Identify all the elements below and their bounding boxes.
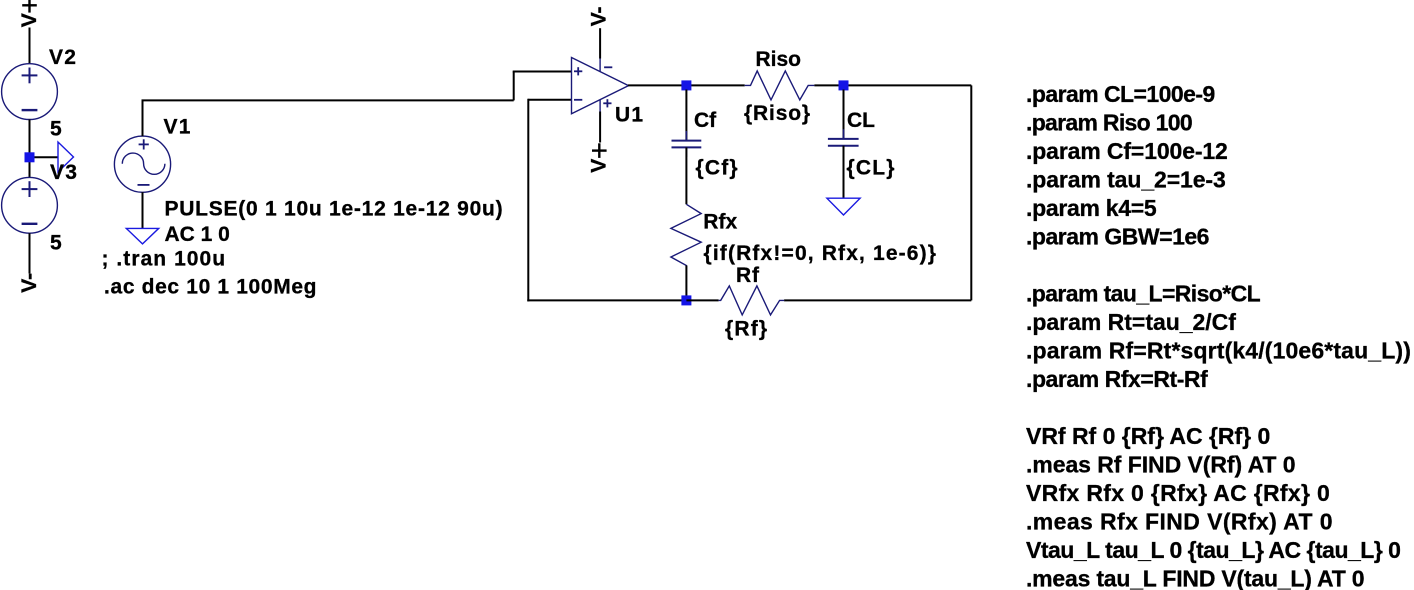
wire bottom power pin: [599, 112, 601, 143]
voltage source V2: [2, 64, 58, 120]
svg-text:Cf: Cf: [694, 109, 717, 132]
svg-text:.param Rfx=Rt-Rf: .param Rfx=Rt-Rf: [1026, 366, 1208, 392]
resistor Riso (horizontal): [745, 71, 815, 100]
wire CL to ground: [843, 146, 845, 198]
svg-text:.param tau_L=Riso*CL: .param tau_L=Riso*CL: [1026, 281, 1261, 307]
wire V1 bottom lead: [142, 192, 144, 228]
svg-text:AC 1 0: AC 1 0: [165, 223, 230, 246]
svg-text:CL: CL: [847, 109, 875, 132]
svg-text:.param Rt=tau_2/Cf: .param Rt=tau_2/Cf: [1026, 309, 1236, 335]
svg-text:5: 5: [50, 117, 62, 140]
svg-text:.ac dec 10 1 100Meg: .ac dec 10 1 100Meg: [104, 276, 317, 299]
svg-text:V1: V1: [164, 115, 192, 138]
wire feedback vertical: [527, 99, 529, 302]
svg-text:.meas Rf FIND V(Rf) AT 0: .meas Rf FIND V(Rf) AT 0: [1026, 452, 1295, 478]
junction node bottom: [681, 295, 691, 305]
wire Cf branch upper: [685, 90, 687, 141]
svg-text:PULSE(0 1 10u 1e-12 1e-12 90u): PULSE(0 1 10u 1e-12 1e-12 90u): [165, 198, 504, 221]
junction node at CL: [839, 80, 849, 90]
capacitor CL lead upper: [843, 90, 845, 139]
svg-text:; .tran 100u: ; .tran 100u: [102, 247, 227, 270]
wire V2 to V3: [29, 120, 31, 178]
svg-text:.param CL=100e-9: .param CL=100e-9: [1026, 81, 1215, 107]
svg-text:Rf: Rf: [736, 264, 760, 287]
junction node at output: [681, 80, 691, 90]
svg-text:.meas Rfx FIND V(Rfx) AT 0: .meas Rfx FIND V(Rfx) AT 0: [1026, 509, 1333, 535]
svg-text:Vtau_L tau_L 0 {tau_L} AC {tau: Vtau_L tau_L 0 {tau_L} AC {tau_L} 0: [1026, 537, 1400, 563]
wire feedback bottom horizontal: [527, 299, 687, 301]
resistor Rf (horizontal): [719, 286, 785, 315]
svg-text:{Rf}: {Rf}: [725, 317, 768, 340]
svg-text:V: V: [588, 159, 611, 173]
junction node (V+/V- midpoint): [25, 152, 35, 162]
wire Cf to Rfx: [685, 147, 687, 204]
wire from V+ label to V2: [29, 28, 31, 65]
svg-text:V3: V3: [50, 161, 78, 184]
svg-text:Rfx: Rfx: [703, 210, 737, 233]
wire into noninverting input: [513, 71, 572, 73]
svg-text:.param Rf=Rt*sqrt(k4/(10e6*tau: .param Rf=Rt*sqrt(k4/(10e6*tau_L)): [1026, 338, 1411, 364]
svg-text:V-: V-: [588, 6, 611, 26]
wire to net flag V3: [30, 156, 59, 158]
wire bottom node to Rf: [686, 299, 718, 301]
svg-text:Riso: Riso: [756, 48, 802, 71]
wire V3 to V- label: [29, 233, 31, 273]
wire Riso to CL node: [814, 84, 971, 86]
capacitor CL: [828, 129, 859, 155]
svg-text:V-: V-: [18, 273, 41, 293]
wire step up: [513, 72, 515, 101]
svg-text:{Cf}: {Cf}: [696, 157, 739, 180]
ground below V1: [126, 228, 158, 244]
svg-text:VRf Rf 0 {Rf} AC {Rf} 0: VRf Rf 0 {Rf} AC {Rf} 0: [1026, 423, 1270, 449]
svg-text:U1: U1: [615, 103, 644, 126]
svg-text:5: 5: [50, 232, 62, 255]
wire feedback into inverting input: [528, 99, 571, 101]
wire V1 top lead: [142, 100, 144, 136]
capacitor Cf: [672, 131, 702, 157]
wire Rfx to bottom node: [685, 266, 687, 301]
wire bottom right horizontal: [784, 299, 971, 301]
svg-text:{if(Rfx!=0, Rfx, 1e-6)}: {if(Rfx!=0, Rfx, 1e-6)}: [704, 242, 938, 265]
svg-text:.param Cf=100e-12: .param Cf=100e-12: [1026, 138, 1228, 164]
ground below CL: [827, 198, 860, 215]
svg-text:{CL}: {CL}: [847, 157, 896, 180]
svg-text:{Riso}: {Riso}: [744, 102, 811, 125]
svg-text:VRfx Rfx 0 {Rfx} AC {Rfx} 0: VRfx Rfx 0 {Rfx} AC {Rfx} 0: [1026, 480, 1330, 506]
voltage source V1: [114, 136, 170, 192]
svg-text:.meas tau_L FIND V(tau_L) AT 0: .meas tau_L FIND V(tau_L) AT 0: [1026, 566, 1364, 590]
svg-text:.param Riso 100: .param Riso 100: [1026, 110, 1192, 136]
svg-text:V: V: [18, 13, 41, 27]
wire V1 to opamp (horizontal): [142, 99, 514, 101]
voltage source V3: [2, 177, 58, 233]
wire right side vertical: [970, 85, 972, 300]
op-amp U1: [572, 58, 629, 114]
wire opamp output: [628, 84, 745, 86]
wire top power pin: [599, 28, 601, 58]
net flag arrow V3: [58, 142, 74, 172]
svg-text:.param k4=5: .param k4=5: [1026, 195, 1157, 221]
svg-text:.param GBW=1e6: .param GBW=1e6: [1026, 224, 1209, 250]
svg-text:.param tau_2=1e-3: .param tau_2=1e-3: [1026, 167, 1226, 193]
svg-text:V2: V2: [49, 46, 77, 69]
resistor Rfx (vertical): [671, 204, 701, 269]
